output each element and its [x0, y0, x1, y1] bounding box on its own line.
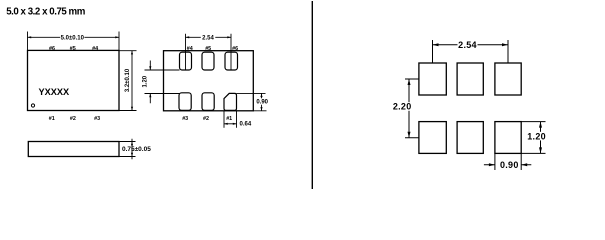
svg-text:#1: #1 [49, 116, 55, 122]
pad #5 (bottom view) [202, 52, 214, 70]
dimension 2.20 (land pattern) line [408, 79, 410, 138]
svg-text:#3: #3 [94, 116, 100, 122]
dimension 2.54 (land pattern) text [458, 40, 478, 50]
dimension 2.54 (bottom view) text [201, 34, 216, 42]
svg-text:0.90: 0.90 [500, 160, 519, 170]
pad #6 (bottom view) [225, 52, 238, 70]
pin 1 indicator circle [31, 104, 34, 107]
pad #3 (bottom view) [179, 93, 191, 111]
land pattern pad bottom-middle [457, 122, 483, 154]
dimension 0.75±0.05 extension lines [119, 142, 136, 157]
land pattern pad top-left [419, 63, 446, 95]
dimension 5.0±0.10 text [60, 34, 84, 42]
svg-text:1.20: 1.20 [527, 131, 546, 141]
svg-text:5.0 x 3.2 x 0.75 mm: 5.0 x 3.2 x 0.75 mm [6, 7, 86, 18]
svg-text:#5: #5 [205, 46, 211, 52]
svg-text:#6: #6 [232, 46, 238, 52]
dimension 2.20 (land pattern) text [392, 102, 412, 112]
bottom view outline [164, 51, 254, 111]
svg-text:#2: #2 [203, 116, 209, 122]
dimension 5.0±0.10 arrowheads [28, 36, 120, 38]
dimension 0.64 arrowheads [224, 123, 237, 125]
dimension 0.90 (bottom view right) extension lines [237, 93, 267, 110]
svg-text:#4: #4 [92, 46, 98, 52]
dimension 3.2±0.10 arrowheads [131, 51, 133, 111]
svg-text:#4: #4 [187, 46, 193, 52]
dimension 2.54 (land pattern) line [433, 44, 509, 46]
svg-text:2.54: 2.54 [458, 40, 477, 50]
dimension 1.20 (land pattern) extension lines [521, 122, 545, 154]
dimension 1.20 (bottom view left) arrowheads [149, 66, 151, 97]
svg-text:3.2±0.10: 3.2±0.10 [125, 68, 131, 92]
dimension 0.90 (bottom view right) line [261, 93, 263, 110]
dimension 5.0±0.10 line [28, 36, 120, 38]
pad #4 (bottom view) [180, 52, 192, 70]
dimension 1.20 (land pattern) text [526, 131, 546, 141]
dimension 0.90 (land pattern) extension lines [495, 153, 521, 170]
dimension 0.64 extension lines [224, 111, 237, 128]
dimension 2.20 (land pattern) extension lines [405, 79, 419, 138]
land pattern pad top-middle [457, 63, 483, 95]
svg-text:2.54: 2.54 [202, 36, 214, 42]
svg-text:0.64: 0.64 [240, 121, 252, 127]
dimension 2.54 (bottom view) extension lines [186, 34, 232, 70]
svg-text:0.75±0.05: 0.75±0.05 [122, 146, 151, 153]
dimension 1.20 (bottom view left) arrow lines [149, 61, 151, 104]
package top view outline [28, 50, 120, 110]
svg-text:#3: #3 [182, 116, 188, 122]
dimension 0.75±0.05 line [131, 139, 133, 160]
svg-text:YXXXX: YXXXX [39, 87, 71, 97]
svg-text:#2: #2 [70, 116, 76, 122]
dimension 1.20 (bottom view left) extension lines [145, 70, 180, 94]
svg-text:#1: #1 [226, 116, 232, 122]
dimension 3.2±0.10 extension lines [119, 51, 137, 111]
pad #2 (bottom view) [202, 93, 214, 111]
dimension 1.20 (land pattern) line [540, 122, 542, 154]
land pattern pad bottom-left [419, 122, 446, 154]
dimension 5.0±0.10 extension lines [28, 32, 120, 51]
dimension 3.2±0.10 line [131, 51, 133, 111]
pad #1 with chamfer (bottom view) [224, 93, 237, 110]
svg-text:#6: #6 [49, 46, 55, 52]
land pattern pad top-right [495, 63, 521, 95]
svg-text:0.90: 0.90 [256, 100, 268, 106]
svg-text:1.20: 1.20 [143, 75, 149, 87]
dimension 2.54 (land pattern) extension lines [433, 40, 509, 63]
svg-text:5.0±0.10: 5.0±0.10 [61, 36, 85, 42]
svg-text:#5: #5 [70, 46, 76, 52]
dimension 0.90 (bottom view right) arrowheads [260, 93, 262, 110]
dimension 0.90 (land pattern) arrowheads [489, 163, 527, 166]
dimension 0.90 (land pattern) arrow lines [484, 164, 531, 166]
dimension 2.54 (bottom view) line [186, 36, 232, 38]
dimension 0.90 (bottom view right) text [255, 98, 268, 105]
dimension 2.54 (land pattern) arrowheads [433, 43, 509, 46]
dimension 2.20 (land pattern) arrowheads [408, 79, 411, 138]
land pattern pad bottom-right [495, 122, 521, 154]
section divider line [311, 1, 313, 189]
dimension 0.64 line [224, 123, 237, 125]
dimension 1.20 (land pattern) arrowheads [539, 122, 542, 154]
side view outline [28, 142, 119, 157]
svg-text:2.20: 2.20 [393, 102, 412, 112]
dimension 0.75±0.05 arrowheads [131, 142, 133, 157]
dimension 2.54 (bottom view) arrowheads [186, 36, 232, 38]
